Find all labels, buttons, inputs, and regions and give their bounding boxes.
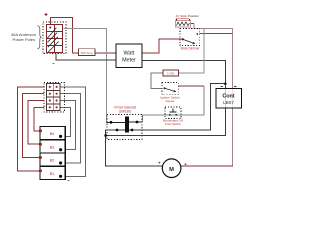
svg-text:300 Amp: 300 Amp xyxy=(81,51,93,55)
svg-text:B4: B4 xyxy=(50,132,55,136)
svg-text:LB07: LB07 xyxy=(223,100,234,105)
svg-text:B3: B3 xyxy=(50,145,55,149)
svg-text:Watt: Watt xyxy=(124,50,135,56)
svg-text:(SW180): (SW180) xyxy=(119,109,132,113)
svg-text:Cont: Cont xyxy=(222,94,234,100)
svg-text:Foot Switch: Foot Switch xyxy=(165,122,181,126)
svg-text:Meter: Meter xyxy=(122,58,136,64)
svg-text:B1: B1 xyxy=(50,172,55,176)
svg-text:B2: B2 xyxy=(50,159,55,163)
svg-text:4X Slide Position: 4X Slide Position xyxy=(176,14,200,18)
svg-text:M: M xyxy=(169,167,174,173)
svg-text:Power Poles: Power Poles xyxy=(13,37,35,42)
svg-text:0.75A: 0.75A xyxy=(167,71,175,75)
svg-text:Slide Dimmer: Slide Dimmer xyxy=(180,46,200,50)
svg-text:Keysw: Keysw xyxy=(166,99,176,103)
